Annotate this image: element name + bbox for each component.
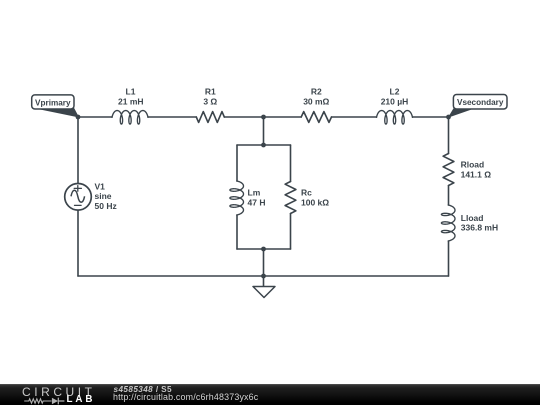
- svg-text:sine: sine: [95, 191, 112, 201]
- svg-text:Rc: Rc: [301, 188, 312, 198]
- svg-text:Vsecondary: Vsecondary: [457, 98, 504, 107]
- svg-text:100 kΩ: 100 kΩ: [301, 197, 329, 207]
- svg-text:R2: R2: [311, 87, 322, 97]
- svg-text:141.1 Ω: 141.1 Ω: [461, 169, 492, 179]
- svg-text:47 H: 47 H: [248, 197, 266, 207]
- svg-text:3 Ω: 3 Ω: [203, 96, 217, 106]
- svg-text:Rload: Rload: [461, 160, 485, 170]
- svg-text:R1: R1: [205, 87, 216, 97]
- svg-text:L2: L2: [390, 87, 400, 97]
- svg-text:30 mΩ: 30 mΩ: [303, 96, 329, 106]
- svg-text:Lload: Lload: [461, 213, 484, 223]
- svg-text:V1: V1: [95, 181, 106, 191]
- svg-text:210 µH: 210 µH: [381, 96, 409, 106]
- svg-text:50 Hz: 50 Hz: [95, 201, 117, 211]
- svg-text:21 mH: 21 mH: [118, 96, 144, 106]
- svg-text:Lm: Lm: [248, 188, 261, 198]
- svg-text:L1: L1: [126, 87, 136, 97]
- svg-text:336.8 mH: 336.8 mH: [461, 223, 498, 233]
- svg-text:Vprimary: Vprimary: [35, 98, 71, 107]
